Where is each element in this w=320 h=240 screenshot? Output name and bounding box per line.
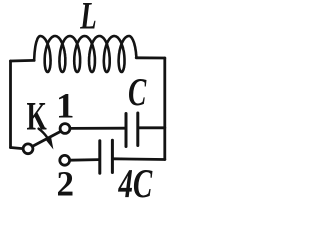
wire top right	[136, 56, 165, 59]
inductor L coil	[34, 36, 136, 72]
wire contact1 to C	[70, 127, 124, 130]
capacitor C right plate	[136, 113, 139, 146]
capacitor 4C left plate	[98, 141, 101, 173]
wire C to right rail	[139, 126, 165, 129]
wire pole feed	[11, 148, 23, 149]
wire right rail	[163, 58, 166, 160]
switch throw arrow	[46, 137, 54, 149]
contact 1	[60, 124, 70, 134]
switch K pole contact	[23, 144, 33, 154]
wire left rail	[9, 61, 12, 148]
label 2	[58, 172, 73, 195]
label K	[27, 103, 47, 129]
label 1	[59, 94, 72, 117]
wire contact2 to 4C	[70, 158, 98, 161]
capacitor C left plate	[125, 114, 128, 147]
switch K blade	[33, 132, 61, 147]
capacitor 4C right plate	[111, 140, 114, 172]
label 4C	[118, 170, 152, 198]
wire top left	[11, 59, 35, 62]
switch arrow tail	[39, 129, 48, 138]
wire bottom 4C to right rail	[114, 157, 165, 160]
contact 2	[60, 155, 70, 165]
label L	[80, 3, 95, 29]
label C	[129, 79, 147, 106]
